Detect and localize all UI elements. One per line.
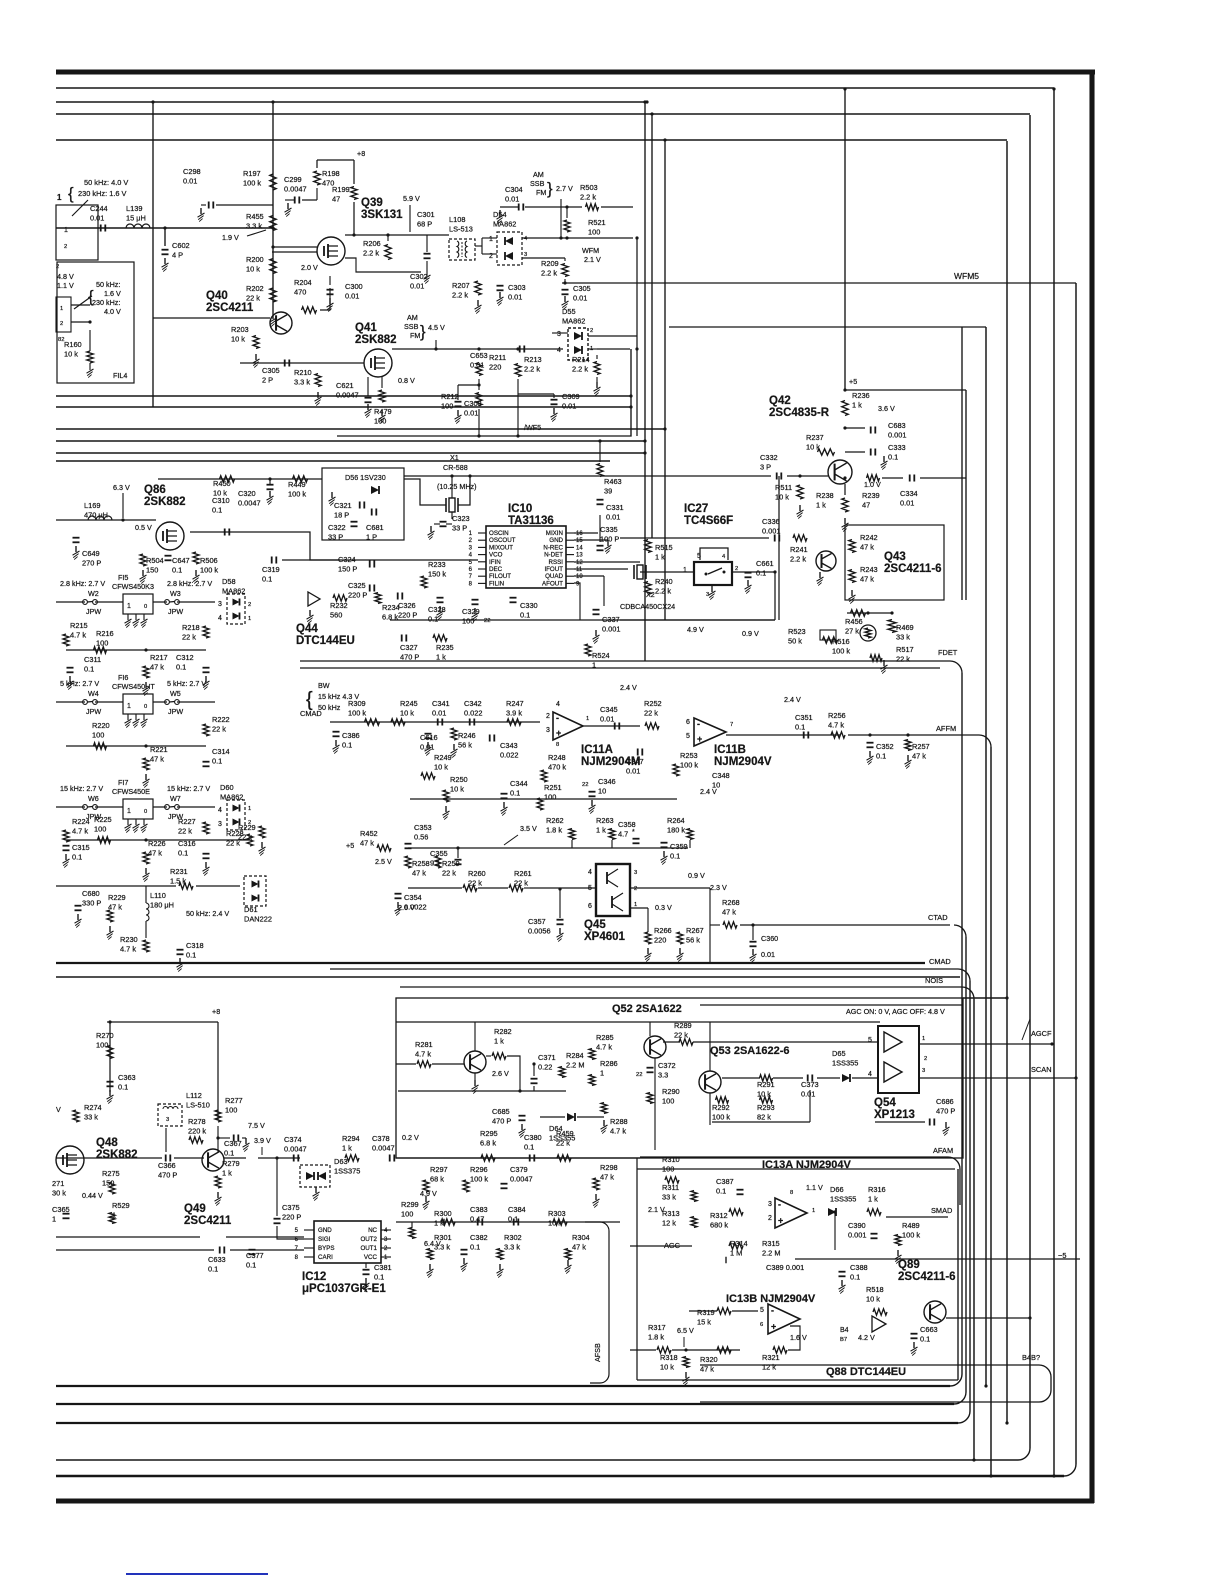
svg-text:VCC: VCC — [364, 1254, 378, 1261]
svg-text:2SK882: 2SK882 — [355, 334, 397, 346]
svg-text:D61: D61 — [244, 905, 258, 914]
svg-text:1.8 k: 1.8 k — [648, 1333, 664, 1342]
svg-text:CFWS450K3: CFWS450K3 — [112, 582, 154, 591]
svg-text:50 k: 50 k — [788, 637, 802, 646]
svg-text:CARI: CARI — [318, 1254, 333, 1261]
svg-text:R249: R249 — [434, 753, 452, 762]
svg-text:47 k: 47 k — [860, 575, 874, 584]
svg-text:FI5: FI5 — [118, 573, 128, 582]
svg-text:AM: AM — [533, 170, 544, 179]
svg-text:1: 1 — [586, 716, 589, 722]
svg-text:2.0 V: 2.0 V — [301, 263, 318, 272]
svg-text:FI7: FI7 — [118, 778, 128, 787]
svg-text:7.5 V: 7.5 V — [248, 1121, 265, 1130]
svg-text:2SC4211: 2SC4211 — [206, 302, 254, 314]
svg-text:100: 100 — [544, 793, 556, 802]
svg-text:R506: R506 — [200, 556, 218, 565]
svg-text:R204: R204 — [294, 278, 312, 287]
svg-text:100 k: 100 k — [832, 647, 850, 656]
svg-text:4.7 k: 4.7 k — [120, 945, 136, 954]
svg-text:IFIN: IFIN — [489, 559, 501, 566]
svg-text:CDBCA450CX24: CDBCA450CX24 — [620, 602, 675, 611]
svg-text:0.01: 0.01 — [470, 361, 484, 370]
svg-text:11: 11 — [576, 567, 583, 573]
svg-text:CTAD: CTAD — [928, 913, 948, 922]
svg-text:IC11A: IC11A — [581, 744, 613, 756]
svg-text:1 k: 1 k — [655, 553, 665, 562]
svg-text:100: 100 — [401, 1210, 413, 1219]
svg-text:L112: L112 — [186, 1091, 202, 1100]
svg-text:0.01: 0.01 — [900, 499, 914, 508]
svg-text:1 k: 1 k — [342, 1144, 352, 1153]
svg-text:3.3 k: 3.3 k — [504, 1243, 520, 1252]
svg-text:Q86: Q86 — [144, 484, 166, 496]
svg-text:R521: R521 — [588, 218, 606, 227]
svg-text:FILIN: FILIN — [489, 580, 504, 587]
svg-text:1.1 V: 1.1 V — [57, 281, 74, 290]
svg-text:C343: C343 — [500, 741, 518, 750]
svg-text:C333: C333 — [888, 443, 906, 452]
svg-text:C382: C382 — [470, 1233, 488, 1242]
svg-text:0.01: 0.01 — [626, 767, 640, 776]
svg-text:2.2 k: 2.2 k — [524, 365, 540, 374]
svg-text:C685: C685 — [492, 1107, 510, 1116]
svg-text:R225: R225 — [94, 815, 112, 824]
svg-text:R267: R267 — [686, 926, 704, 935]
svg-text:R218: R218 — [182, 623, 200, 632]
svg-text:230 kHz:: 230 kHz: — [92, 298, 120, 307]
svg-text:1: 1 — [248, 616, 251, 622]
svg-text:100 P: 100 P — [600, 535, 619, 544]
svg-text:Q43: Q43 — [884, 551, 906, 563]
svg-text:FIL4: FIL4 — [113, 371, 127, 380]
svg-text:15: 15 — [576, 538, 583, 544]
svg-text:N-REC: N-REC — [543, 544, 563, 551]
svg-text:3: 3 — [218, 821, 222, 828]
svg-text:2: 2 — [768, 1215, 772, 1222]
svg-text:+5: +5 — [346, 841, 354, 850]
svg-text:C355: C355 — [430, 849, 448, 858]
svg-text:0.3 V: 0.3 V — [655, 903, 672, 912]
svg-text:0.44 V: 0.44 V — [82, 1191, 103, 1200]
svg-text:6: 6 — [588, 903, 592, 910]
svg-text:3.9 k: 3.9 k — [506, 709, 522, 718]
svg-text:330 P: 330 P — [82, 899, 101, 908]
svg-text:15 kHz: 2.7 V: 15 kHz: 2.7 V — [167, 784, 210, 793]
svg-text:R455: R455 — [246, 212, 264, 221]
svg-text:0.0056: 0.0056 — [528, 927, 551, 936]
svg-text:C653: C653 — [470, 351, 488, 360]
svg-text:R301: R301 — [434, 1233, 452, 1242]
svg-text:R516: R516 — [832, 637, 850, 646]
svg-text:R450: R450 — [213, 479, 231, 488]
svg-text:15 μH: 15 μH — [126, 214, 146, 223]
svg-text:271: 271 — [52, 1179, 64, 1188]
svg-text:R217: R217 — [150, 653, 168, 662]
svg-text:R235: R235 — [436, 643, 454, 652]
svg-text:2 P: 2 P — [262, 376, 273, 385]
svg-text:2.7 V: 2.7 V — [556, 184, 573, 193]
svg-text:R270: R270 — [96, 1031, 114, 1040]
svg-text:33 k: 33 k — [84, 1113, 98, 1122]
svg-text:10 k: 10 k — [434, 763, 448, 772]
svg-text:IFOUT: IFOUT — [544, 566, 563, 573]
svg-text:DTC144EU: DTC144EU — [296, 635, 355, 647]
svg-text:D66: D66 — [830, 1185, 844, 1194]
svg-text:R517: R517 — [896, 645, 914, 654]
svg-text:Q39: Q39 — [361, 197, 383, 209]
svg-text:C322: C322 — [328, 523, 346, 532]
svg-text:22 k: 22 k — [514, 879, 528, 888]
svg-text:C683: C683 — [888, 421, 906, 430]
svg-text:560: 560 — [330, 611, 342, 620]
svg-text:6: 6 — [760, 1322, 763, 1328]
svg-text:0.1: 0.1 — [224, 1149, 234, 1158]
svg-text:R206: R206 — [363, 239, 381, 248]
svg-text:C647: C647 — [172, 556, 190, 565]
svg-text:0.0047: 0.0047 — [284, 1145, 307, 1154]
svg-text:1: 1 — [812, 1208, 815, 1214]
svg-text:R300: R300 — [434, 1209, 452, 1218]
svg-text:L169: L169 — [84, 501, 100, 510]
svg-text:1.6 V: 1.6 V — [790, 1333, 807, 1342]
svg-text:-: - — [697, 719, 700, 729]
svg-text:R459: R459 — [556, 1129, 574, 1138]
svg-text:3.3: 3.3 — [658, 1071, 668, 1080]
svg-text:R298: R298 — [600, 1163, 618, 1172]
svg-text:0.001: 0.001 — [762, 527, 781, 536]
svg-text:LS-513: LS-513 — [449, 225, 473, 234]
svg-text:100: 100 — [92, 731, 104, 740]
svg-text:1 k: 1 k — [816, 501, 826, 510]
svg-text:0.9 V: 0.9 V — [742, 629, 759, 638]
svg-text:2SC4835-R: 2SC4835-R — [769, 407, 830, 419]
svg-text:6.5 V: 6.5 V — [677, 1326, 694, 1335]
svg-text:10: 10 — [598, 787, 606, 796]
svg-text:1: 1 — [127, 603, 131, 610]
svg-text:10 k: 10 k — [450, 785, 464, 794]
svg-text:4.7 k: 4.7 k — [596, 1043, 612, 1052]
svg-text:C319: C319 — [262, 565, 280, 574]
svg-text:2.2 M: 2.2 M — [762, 1249, 780, 1258]
svg-text:JPW: JPW — [86, 607, 101, 616]
svg-text:W5: W5 — [170, 689, 181, 698]
svg-text:R268: R268 — [722, 898, 740, 907]
svg-text:R282: R282 — [494, 1027, 512, 1036]
svg-text:R203: R203 — [231, 325, 249, 334]
svg-text:R234: R234 — [382, 603, 400, 612]
svg-text:R452: R452 — [360, 829, 378, 838]
svg-text:470 P: 470 P — [158, 1171, 177, 1180]
svg-text:22 k: 22 k — [674, 1031, 688, 1040]
svg-text:W2: W2 — [88, 589, 99, 598]
svg-text:R230: R230 — [120, 935, 138, 944]
svg-text:C334: C334 — [900, 489, 918, 498]
svg-text:10 k: 10 k — [246, 265, 260, 274]
svg-text:C299: C299 — [284, 175, 302, 184]
svg-text:Q89: Q89 — [898, 1259, 920, 1271]
svg-text:4.7 k: 4.7 k — [828, 721, 844, 730]
svg-text:4.2 V: 4.2 V — [858, 1333, 875, 1342]
svg-text:0.1: 0.1 — [850, 1273, 860, 1282]
svg-text:0.1: 0.1 — [118, 1083, 128, 1092]
svg-text:FDET: FDET — [938, 648, 958, 657]
svg-text:C244: C244 — [90, 204, 108, 213]
svg-text:R312: R312 — [710, 1211, 728, 1220]
svg-text:0.8 V: 0.8 V — [398, 376, 415, 385]
svg-text:0.0047: 0.0047 — [238, 499, 261, 508]
svg-text:0.01: 0.01 — [183, 177, 197, 186]
svg-text:0.1: 0.1 — [246, 1261, 256, 1270]
svg-text:12 k: 12 k — [762, 1363, 776, 1372]
svg-text:W7: W7 — [170, 794, 181, 803]
svg-text:0.01: 0.01 — [464, 409, 478, 418]
svg-text:22 k: 22 k — [212, 725, 226, 734]
svg-text:14: 14 — [576, 545, 583, 551]
svg-text:47 k: 47 k — [150, 755, 164, 764]
svg-text:0.1: 0.1 — [176, 663, 186, 672]
svg-text:3.3 k: 3.3 k — [434, 1243, 450, 1252]
svg-text:C388: C388 — [850, 1263, 868, 1272]
svg-text:22 k: 22 k — [896, 655, 910, 664]
svg-text:NC: NC — [368, 1227, 377, 1234]
svg-text:R210: R210 — [294, 368, 312, 377]
svg-text:C324: C324 — [338, 555, 356, 564]
svg-text:μPC1037GR-E1: μPC1037GR-E1 — [302, 1283, 386, 1295]
svg-text:C680: C680 — [82, 889, 100, 898]
svg-text:+5: +5 — [849, 377, 857, 386]
svg-text:SSB: SSB — [530, 179, 545, 188]
svg-text:8: 8 — [556, 742, 559, 748]
svg-text:4.0 V: 4.0 V — [104, 307, 121, 316]
svg-text:47 k: 47 k — [572, 1243, 586, 1252]
svg-text:1: 1 — [52, 1215, 56, 1224]
svg-text:R262: R262 — [546, 816, 564, 825]
svg-text:C375: C375 — [282, 1203, 300, 1212]
svg-text:X1: X1 — [450, 453, 459, 462]
svg-text:1: 1 — [922, 1036, 925, 1042]
svg-text:5 kHz: 2.7 V: 5 kHz: 2.7 V — [167, 679, 206, 688]
svg-text:3: 3 — [634, 870, 637, 876]
svg-text:2.2 k: 2.2 k — [655, 587, 671, 596]
svg-text:R224: R224 — [72, 817, 90, 826]
svg-text:3: 3 — [524, 252, 527, 258]
svg-text:-: - — [556, 713, 559, 723]
svg-text:R222: R222 — [212, 715, 230, 724]
svg-text:SSB: SSB — [404, 322, 419, 331]
svg-text:R289: R289 — [674, 1021, 692, 1030]
svg-text:2.8 kHz: 2.7 V: 2.8 kHz: 2.7 V — [167, 579, 212, 588]
svg-text:3.3 k: 3.3 k — [246, 222, 262, 231]
svg-text:3: 3 — [768, 1201, 772, 1208]
svg-text:2: 2 — [735, 566, 738, 572]
svg-text:C329: C329 — [462, 607, 480, 616]
svg-text:9.1: 9.1 — [430, 859, 440, 868]
svg-text:R209: R209 — [541, 259, 559, 268]
svg-text:4: 4 — [557, 347, 561, 354]
svg-text:1: 1 — [489, 236, 493, 243]
svg-text:2.2 k: 2.2 k — [452, 291, 468, 300]
svg-text:X2: X2 — [646, 590, 655, 599]
svg-text:1: 1 — [57, 193, 62, 202]
svg-text:0.1: 0.1 — [920, 1335, 930, 1344]
svg-text:IC13B NJM2904V: IC13B NJM2904V — [726, 1293, 816, 1305]
svg-text:Q88 DTC144EU: Q88 DTC144EU — [826, 1366, 906, 1378]
svg-text:R469: R469 — [896, 623, 914, 632]
svg-text:V: V — [56, 1105, 61, 1114]
svg-text:{: { — [306, 689, 313, 711]
svg-text:TC4S66F: TC4S66F — [684, 515, 733, 527]
svg-text:1 k: 1 k — [436, 653, 446, 662]
svg-text:3: 3 — [557, 331, 561, 338]
svg-text:150: 150 — [146, 566, 158, 575]
svg-text:B4B?: B4B? — [1022, 1353, 1040, 1362]
svg-text:2: 2 — [248, 602, 251, 608]
svg-text:15 kHz: 2.7 V: 15 kHz: 2.7 V — [60, 784, 103, 793]
svg-text:100 k: 100 k — [712, 1113, 730, 1122]
svg-text:47 k: 47 k — [412, 869, 426, 878]
svg-text:0.1: 0.1 — [888, 453, 898, 462]
svg-text:D56 1SV230: D56 1SV230 — [345, 473, 386, 482]
svg-text:1 P: 1 P — [366, 533, 377, 542]
svg-text:470 P: 470 P — [492, 1117, 511, 1126]
svg-text:C360: C360 — [761, 934, 778, 943]
svg-text:22 k: 22 k — [468, 879, 482, 888]
svg-text:R215: R215 — [70, 621, 88, 630]
svg-text:C304: C304 — [505, 185, 523, 194]
svg-text:R211: R211 — [489, 353, 506, 362]
svg-text:2.3 V: 2.3 V — [710, 883, 727, 892]
svg-text:R296: R296 — [470, 1165, 488, 1174]
svg-text:3.9 V: 3.9 V — [254, 1136, 271, 1145]
svg-text:DEC: DEC — [489, 566, 503, 573]
svg-text:1.9 V: 1.9 V — [222, 233, 239, 242]
svg-text:C387: C387 — [716, 1177, 734, 1186]
svg-text:1 k: 1 k — [868, 1195, 878, 1204]
svg-text:R503: R503 — [580, 183, 598, 192]
svg-text:22 k: 22 k — [644, 709, 658, 718]
svg-text:C323: C323 — [452, 514, 470, 523]
svg-text:AFFM: AFFM — [936, 724, 956, 733]
svg-text:R200: R200 — [246, 255, 264, 264]
svg-text:2.2 k: 2.2 k — [541, 269, 557, 278]
svg-text:22 k: 22 k — [238, 833, 252, 842]
svg-text:1.8 k: 1.8 k — [546, 826, 562, 835]
svg-text:0.01: 0.01 — [562, 402, 576, 411]
svg-text:2.5 V: 2.5 V — [375, 857, 392, 866]
svg-text:R317: R317 — [648, 1323, 666, 1332]
svg-text:GND: GND — [318, 1227, 332, 1234]
svg-text:R303: R303 — [548, 1209, 566, 1218]
svg-text:C318: C318 — [186, 941, 204, 950]
svg-text:R320: R320 — [700, 1355, 718, 1364]
svg-text:R463: R463 — [604, 477, 622, 486]
svg-text:OSCOUT: OSCOUT — [489, 537, 516, 544]
svg-text:0.022: 0.022 — [464, 709, 483, 718]
svg-text:0.1: 0.1 — [186, 951, 196, 960]
svg-text:Q49: Q49 — [184, 1203, 206, 1215]
svg-text:C633: C633 — [208, 1255, 226, 1264]
svg-text:C372: C372 — [658, 1061, 676, 1070]
svg-text:FM: FM — [536, 188, 546, 197]
svg-text:}: } — [547, 179, 553, 198]
svg-text:Q52 2SA1622: Q52 2SA1622 — [612, 1003, 682, 1015]
svg-text:0.01: 0.01 — [508, 293, 522, 302]
svg-text:C305: C305 — [262, 366, 280, 375]
svg-text:1.1 V: 1.1 V — [806, 1183, 823, 1192]
svg-text:82 k: 82 k — [757, 1113, 771, 1122]
svg-text:R504: R504 — [146, 556, 164, 565]
svg-text:22: 22 — [636, 1072, 642, 1078]
svg-text:10 k: 10 k — [400, 709, 414, 718]
svg-text:R479: R479 — [374, 407, 392, 416]
svg-text:C332: C332 — [760, 453, 778, 462]
svg-text:C303: C303 — [508, 283, 526, 292]
svg-text:R252: R252 — [644, 699, 662, 708]
svg-text:0.5 V: 0.5 V — [135, 523, 152, 532]
svg-text:3: 3 — [218, 601, 222, 608]
svg-text:R263: R263 — [596, 816, 614, 825]
svg-text:JPW: JPW — [168, 707, 183, 716]
svg-text:*: * — [632, 829, 635, 836]
svg-text:FI6: FI6 — [118, 673, 128, 682]
svg-text:47 k: 47 k — [108, 903, 122, 912]
svg-text:C312: C312 — [176, 653, 194, 662]
svg-text:RSSI: RSSI — [549, 559, 564, 566]
svg-text:2.8 kHz: 2.7 V: 2.8 kHz: 2.7 V — [60, 579, 105, 588]
svg-text:C384: C384 — [508, 1205, 526, 1214]
svg-text:R257: R257 — [912, 742, 930, 751]
svg-text:R523: R523 — [788, 627, 806, 636]
svg-text:470 P: 470 P — [400, 653, 419, 662]
svg-text:R299: R299 — [401, 1200, 419, 1209]
svg-text:C321: C321 — [334, 501, 352, 510]
svg-text:0.0047: 0.0047 — [336, 391, 359, 400]
svg-text:1SS375: 1SS375 — [334, 1167, 360, 1176]
svg-text:0.01: 0.01 — [600, 715, 614, 724]
svg-text:R227: R227 — [178, 817, 196, 826]
svg-text:12: 12 — [576, 560, 583, 566]
svg-text:13: 13 — [576, 553, 583, 559]
svg-text:47 k: 47 k — [700, 1365, 714, 1374]
svg-text:0.01: 0.01 — [761, 950, 775, 959]
svg-text:L108: L108 — [449, 215, 465, 224]
svg-text:2.2 k: 2.2 k — [572, 365, 588, 374]
svg-text:100 k: 100 k — [470, 1175, 488, 1184]
svg-text:C377: C377 — [246, 1251, 264, 1260]
svg-text:4: 4 — [588, 869, 592, 876]
svg-text:16: 16 — [576, 531, 583, 537]
svg-text:56 k: 56 k — [458, 741, 472, 750]
svg-text:2.4 V: 2.4 V — [620, 683, 637, 692]
svg-text:R240: R240 — [655, 577, 673, 586]
svg-text:2.6 V: 2.6 V — [492, 1069, 509, 1078]
svg-text:C320: C320 — [238, 489, 256, 498]
svg-text:C325: C325 — [348, 581, 366, 590]
svg-text:5: 5 — [686, 733, 690, 740]
svg-text:W3: W3 — [170, 589, 181, 598]
svg-text:C341: C341 — [432, 699, 450, 708]
svg-text:R226: R226 — [148, 839, 166, 848]
svg-text:0.01: 0.01 — [90, 214, 104, 223]
svg-text:C359: C359 — [670, 842, 688, 851]
svg-text:22 k: 22 k — [442, 869, 456, 878]
svg-text:/WF5: /WF5 — [524, 423, 541, 432]
svg-text:100: 100 — [96, 1041, 108, 1050]
svg-text:2.4 V: 2.4 V — [784, 695, 801, 704]
svg-text:C374: C374 — [284, 1135, 302, 1144]
svg-text:0: 0 — [144, 809, 147, 815]
